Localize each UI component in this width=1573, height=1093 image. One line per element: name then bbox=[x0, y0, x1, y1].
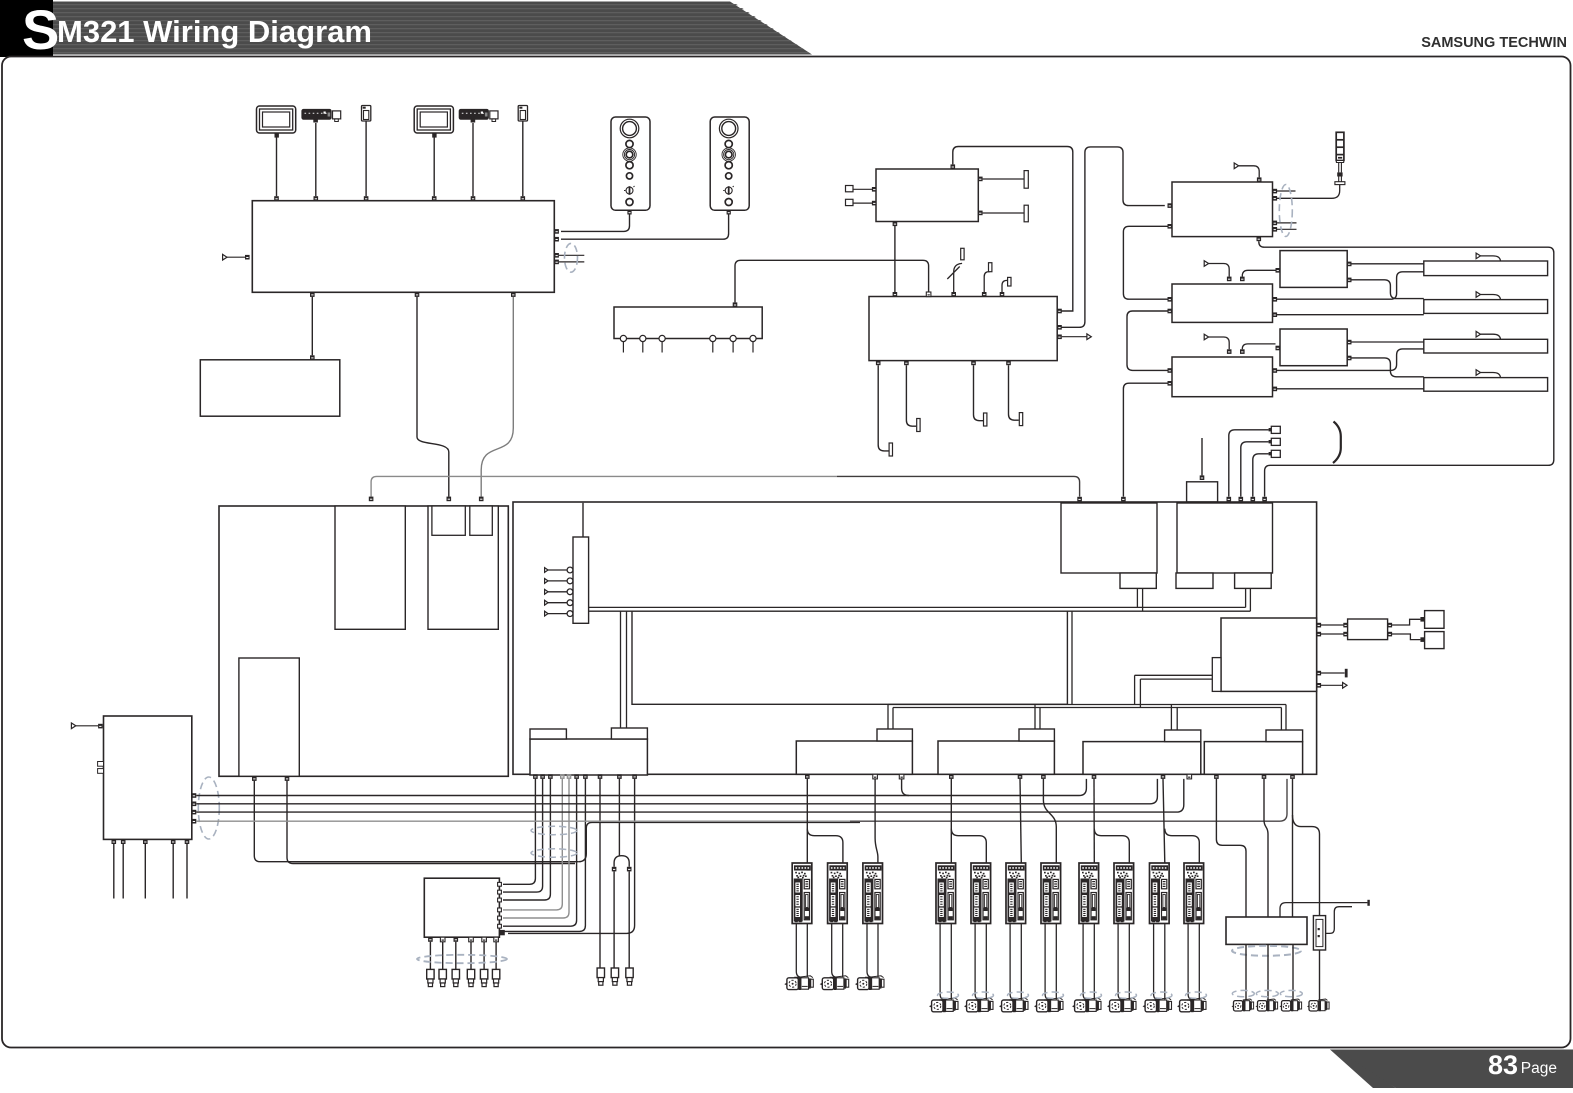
svg-text:S: S bbox=[22, 0, 59, 61]
svg-text:M321 Wiring Diagram: M321 Wiring Diagram bbox=[57, 14, 372, 49]
svg-text:SAMSUNG TECHWIN: SAMSUNG TECHWIN bbox=[1421, 35, 1567, 51]
svg-text:Page: Page bbox=[1521, 1060, 1557, 1077]
svg-text:83: 83 bbox=[1488, 1050, 1518, 1080]
